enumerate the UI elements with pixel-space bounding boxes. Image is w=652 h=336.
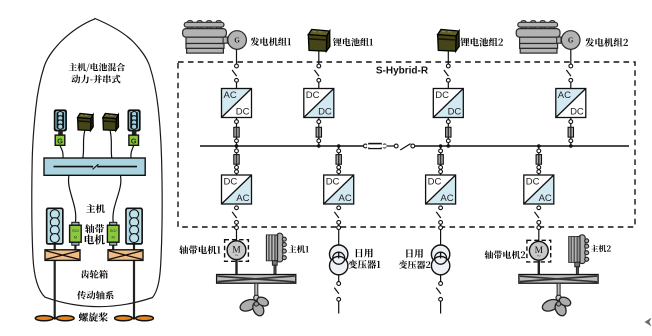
svg-text:G: G: [568, 37, 574, 45]
wire bus to motorR: [113, 175, 121, 222]
wire: [318, 118, 320, 145]
svg-text:DC: DC: [236, 106, 250, 117]
svg-text:AC: AC: [236, 193, 249, 204]
shaft motor M1: [225, 240, 249, 262]
wire batL to bus: [83, 131, 85, 158]
label transformer2 l2 (变压器2) size~9.0: [399, 260, 431, 269]
wire batR to bus: [110, 131, 112, 158]
svg-text:DC: DC: [224, 177, 238, 188]
converter U4 (gen2 AC/DC): [556, 89, 586, 118]
svg-text:S-Hybrid-R: S-Hybrid-R: [376, 65, 429, 76]
svg-text:DC: DC: [306, 90, 320, 101]
ship battery left: [78, 114, 94, 131]
wire U3 (bat2 DC/DC) source drop: [447, 52, 449, 65]
main engine icon E1: [266, 233, 286, 275]
wire to load: [236, 224, 238, 241]
bus junction U7 (transformer2 DC/AC): [439, 144, 443, 148]
connector left genset: [58, 131, 63, 135]
battery pack icon 2: [438, 29, 460, 51]
ship propeller right: [115, 316, 154, 321]
inverter U5 (motor1 DC/AC): [222, 175, 252, 204]
label main engine2 (主机2) size~8.0: [591, 245, 611, 253]
battery pack icon 1: [308, 29, 330, 51]
G box left: [55, 135, 65, 145]
label ship shaft-motor l1 (轴带) size~9.7: [85, 224, 104, 233]
wire U2 (bat1 DC/DC) source drop: [318, 52, 320, 65]
svg-text:M: M: [112, 235, 115, 240]
propeller P2: [541, 295, 572, 317]
propeller shaft P1: [255, 283, 258, 297]
label battery1 (锂电池组1) size~9.1: [333, 38, 373, 47]
ship bus bar: [44, 158, 145, 175]
connector right genset: [132, 131, 137, 135]
svg-text:DC: DC: [326, 177, 340, 188]
bus tie fuse: [364, 143, 387, 148]
wire U4 (gen2 AC/DC) source drop: [570, 49, 572, 64]
inverter U7 (transformer2 DC/AC): [426, 175, 456, 204]
wire to load: [440, 224, 442, 245]
switch T2 feeder: [436, 275, 442, 314]
ship battery right: [103, 114, 119, 131]
svg-text:AC: AC: [558, 90, 571, 101]
wire U1 (gen1 AC/DC) source drop: [236, 49, 238, 64]
label transformer1 l2 (变压器1) size~9.4: [348, 260, 380, 269]
switch U7 (transformer2 DC/AC) bottom: [436, 206, 442, 224]
inverter U6 (transformer1 DC/AC): [324, 175, 354, 204]
wire: [447, 118, 449, 145]
switch T1 feeder: [334, 275, 340, 314]
ship shaft motor right: [107, 222, 119, 245]
label genset2 (发电机组2) size~9.5: [585, 38, 628, 47]
svg-text:DC: DC: [526, 177, 540, 188]
bus tie switch: [394, 144, 414, 150]
bus junction U8 (motor2 DC/AC): [537, 144, 541, 148]
label main engine1 (主机1) size~8.5: [288, 245, 308, 253]
bus junction U2 (bat1 DC/DC): [317, 144, 321, 148]
switch U3 (bat2 DC/DC) top: [444, 64, 450, 82]
transformer T2: [431, 245, 449, 275]
svg-text:DC: DC: [435, 90, 449, 101]
ship propeller left: [35, 316, 74, 321]
svg-text:DC: DC: [570, 106, 584, 117]
wire: [570, 118, 572, 145]
svg-text:~: ~: [537, 253, 541, 260]
wire genR to bus: [131, 146, 134, 159]
label ship title line2 (动力-并串式) size~9.2: [72, 75, 121, 84]
wire: [338, 146, 340, 175]
wire: [538, 146, 540, 175]
label shaft motor1 (轴带电机1) size~9.4: [179, 245, 220, 254]
label ship title line1 (主机/电池混合) size~8.9: [69, 63, 125, 72]
bus junction U6 (transformer1 DC/AC): [337, 144, 341, 148]
fuse U3 (bat2 DC/DC): [446, 120, 451, 143]
svg-text:M: M: [74, 235, 77, 240]
label ship shafting (传动轴系) size~9.3: [77, 291, 113, 300]
wire: [318, 82, 320, 88]
wire: [447, 82, 449, 88]
propeller shaft P2: [557, 283, 560, 297]
diesel generator GEN2: [516, 21, 580, 54]
ship hull outline: [32, 19, 162, 307]
switch U1 (gen1 AC/DC) top: [232, 64, 238, 82]
svg-text:SG/: SG/: [110, 228, 118, 233]
svg-text:AC: AC: [224, 90, 237, 101]
converter U1 (gen1 AC/DC): [222, 89, 252, 118]
ship shaft motor left: [70, 222, 82, 245]
svg-text:G: G: [57, 136, 63, 145]
propeller P1: [238, 295, 269, 317]
fuse U2 (bat1 DC/DC): [316, 120, 321, 143]
fuse U6 (transformer1 DC/AC): [336, 149, 341, 174]
label ship gearbox (齿轮箱) size~9.2: [81, 270, 108, 279]
inverter U8 (motor2 DC/AC): [524, 175, 554, 204]
M1 shaft to gearbox: [235, 260, 237, 275]
converter U3 (bat2 DC/DC): [433, 89, 463, 118]
fuse U8 (motor2 DC/AC): [536, 149, 541, 174]
G box right: [129, 135, 139, 145]
switch U2 (bat1 DC/DC) top: [314, 64, 320, 82]
svg-text:AC: AC: [440, 193, 453, 204]
wire: [236, 146, 238, 175]
frame pin U7 (transformer2 DC/AC): [439, 226, 443, 230]
ship gearbox right: [108, 250, 143, 261]
frame pin U6 (transformer1 DC/AC): [337, 226, 341, 230]
svg-text:AC: AC: [338, 193, 351, 204]
switch U6 (transformer1 DC/AC) bottom: [334, 206, 340, 224]
svg-text:AC: AC: [539, 193, 552, 204]
wire: [236, 118, 238, 145]
wire genL to bus: [60, 146, 63, 159]
ship main engine right shaft: [133, 243, 135, 318]
bus junction U3 (bat2 DC/DC): [447, 144, 451, 148]
fuse U5 (motor1 DC/AC): [234, 149, 239, 174]
bus junction U5 (motor1 DC/AC): [235, 144, 239, 148]
svg-text:~: ~: [235, 253, 239, 260]
bus junction U4 (gen2 AC/DC): [569, 144, 573, 148]
svg-text:SG/: SG/: [72, 228, 80, 233]
ship main engine stack right: [126, 208, 142, 244]
shaft motor M2: [527, 240, 551, 262]
bus junction U1 (gen1 AC/DC): [235, 144, 239, 148]
label transformer2 l1 (日用) size~9.6: [406, 249, 423, 258]
wire to load: [538, 224, 540, 241]
diesel generator GEN1: [183, 21, 247, 54]
switch U5 (motor1 DC/AC) bottom: [232, 206, 238, 224]
label shaft motor2 (轴带电机2) size~9.0: [485, 251, 526, 259]
transformer T1: [330, 245, 348, 275]
label transformer1 l1 (日用) size~9.8: [356, 249, 373, 258]
label ship propeller (螺旋桨) size~9.9: [79, 312, 108, 321]
label ship main-engine (主机) size~9.5: [86, 204, 105, 213]
ship motorL shaft: [74, 244, 76, 251]
svg-text:DC: DC: [428, 177, 442, 188]
switch U4 (gen2 AC/DC) top: [566, 64, 572, 82]
wire bus to motorL: [69, 175, 76, 222]
cursor arrow mark: [645, 318, 652, 327]
svg-text:DC: DC: [318, 106, 332, 117]
gearbox GB2: [519, 275, 598, 284]
wire: [440, 146, 442, 175]
ship main engine stack left: [47, 208, 63, 244]
fuse U7 (transformer2 DC/AC): [438, 149, 443, 174]
switch U8 (motor2 DC/AC) bottom: [534, 206, 540, 224]
ship gearbox left: [45, 250, 80, 261]
label battery2 (锂电池组2) size~9.4: [461, 38, 504, 47]
ship generator stack left: [55, 110, 67, 130]
svg-text:G: G: [131, 136, 137, 145]
dashed system frame: [178, 62, 635, 227]
ship main engine left shaft: [54, 243, 56, 318]
fuse U1 (gen1 AC/DC): [234, 120, 239, 143]
frame pin U8 (motor2 DC/AC): [537, 226, 541, 230]
gearbox GB1: [217, 275, 296, 284]
main DC bus: [200, 145, 629, 147]
frame pin U5 (motor1 DC/AC): [235, 226, 239, 230]
wire: [236, 82, 238, 88]
ship generator stack right: [128, 110, 140, 130]
converter U2 (bat1 DC/DC): [304, 89, 334, 118]
wire: [570, 82, 572, 88]
bus tie link: [386, 145, 394, 147]
fuse U4 (gen2 AC/DC): [568, 120, 573, 143]
svg-text:G: G: [234, 37, 240, 45]
label genset1 (发电机组1) size~9.2: [251, 37, 292, 46]
ship motorR shaft: [112, 244, 114, 251]
main engine icon E2: [569, 235, 589, 277]
M2 shaft to gearbox: [538, 260, 540, 274]
svg-text:DC: DC: [448, 106, 462, 117]
wire to load: [338, 224, 340, 245]
label ship shaft-motor l2 (电机) size~10.7: [85, 234, 105, 244]
